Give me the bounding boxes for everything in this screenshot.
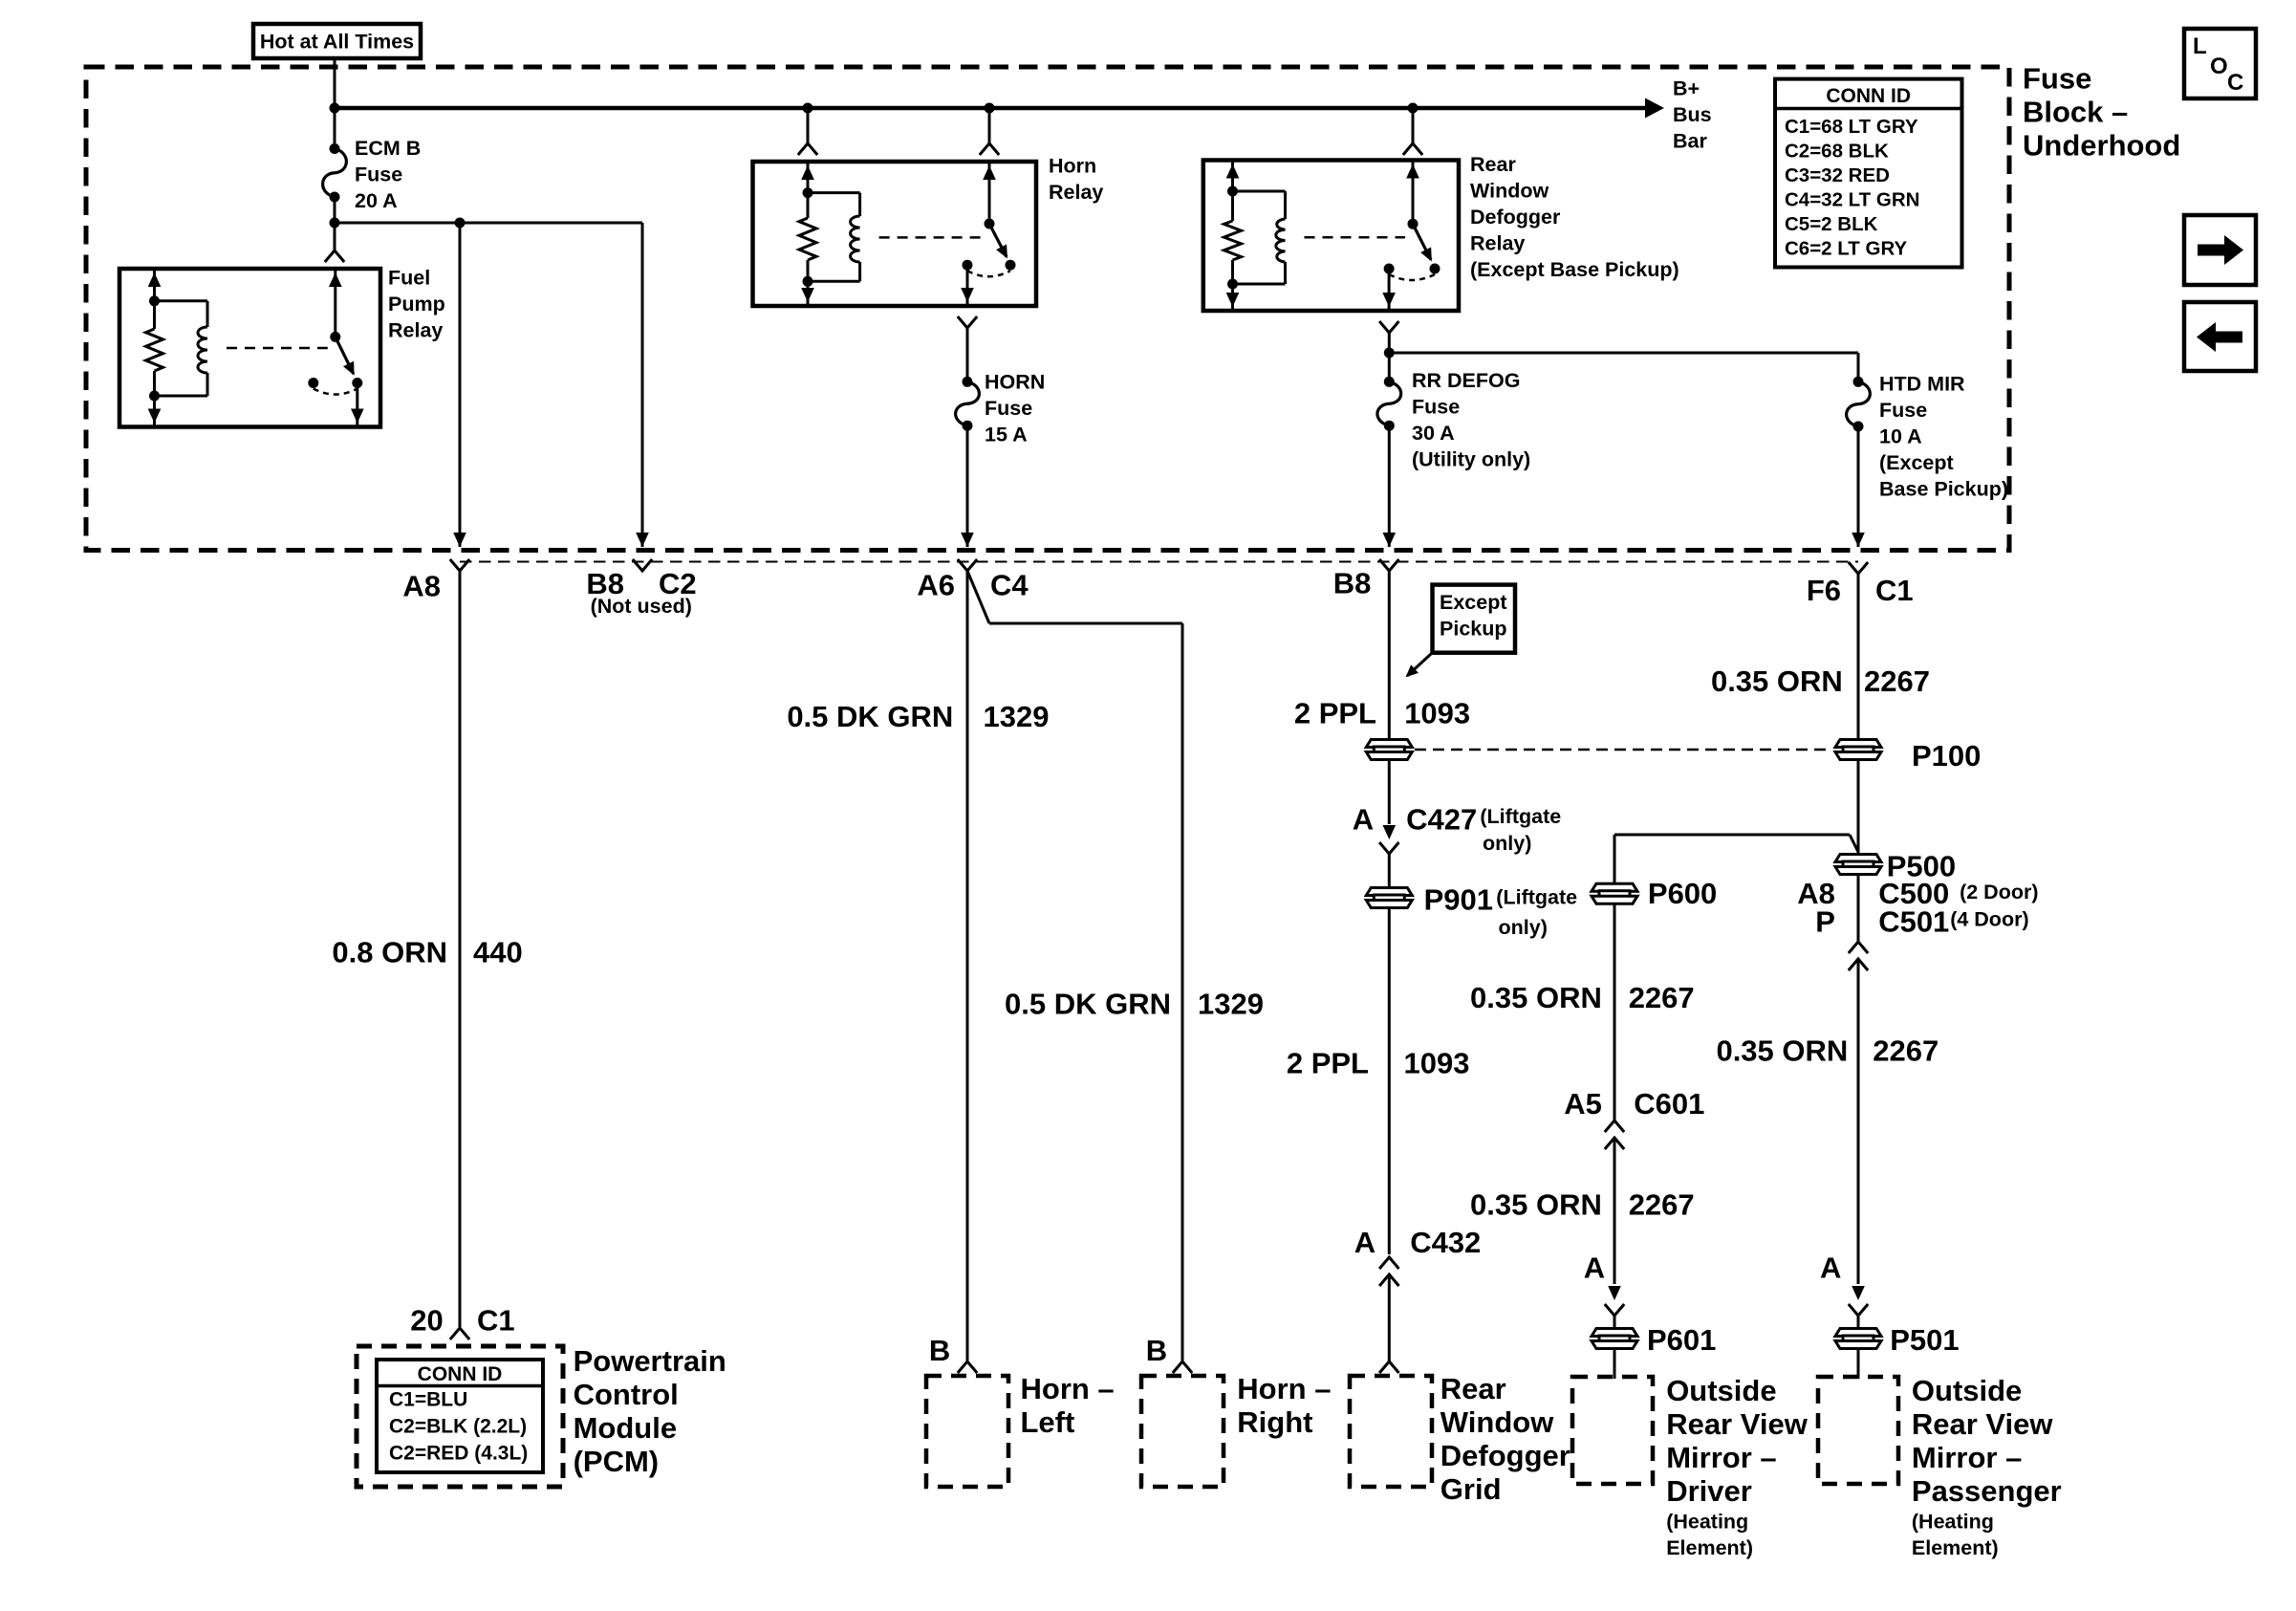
svg-text:A6: A6 <box>917 569 955 602</box>
connector P601 <box>1592 1329 1637 1349</box>
svg-text:Powertrain: Powertrain <box>574 1344 726 1378</box>
wire bus to defogger relay switch <box>1412 108 1415 143</box>
svg-text:F6: F6 <box>1807 574 1841 607</box>
connector P100 left half <box>1366 740 1412 760</box>
chevron C601 lower <box>1605 1138 1624 1149</box>
svg-text:(4 Door): (4 Door) <box>1950 907 2028 930</box>
relay Rear Window Defogger actuating dashed link <box>1305 236 1406 239</box>
relay Fuel Pump switch <box>334 271 336 337</box>
svg-text:P100: P100 <box>1912 739 1981 773</box>
svg-text:Passenger: Passenger <box>1912 1474 2062 1508</box>
chevron C500/C501 upper <box>1849 942 1868 953</box>
wire fuse to junction <box>334 197 336 223</box>
chevron C432 lower <box>1379 1274 1398 1286</box>
svg-text:C1: C1 <box>1875 574 1914 607</box>
svg-text:A8: A8 <box>402 569 441 602</box>
svg-text:CONN ID: CONN ID <box>1826 85 1911 107</box>
svg-text:C4=32 LT GRN: C4=32 LT GRN <box>1785 189 1919 211</box>
svg-text:A: A <box>1354 1226 1375 1259</box>
CONN ID table fuse block <box>1775 79 1962 268</box>
svg-text:Left: Left <box>1021 1405 1075 1439</box>
wire bus to ECM B fuse <box>334 108 336 149</box>
chevron A driver <box>1605 1304 1624 1316</box>
arrow A passenger <box>1852 1286 1865 1300</box>
svg-text:Rear View: Rear View <box>1912 1407 2054 1441</box>
svg-text:Mirror –: Mirror – <box>1912 1441 2022 1474</box>
wire P100 to P500 <box>1857 760 1860 854</box>
svg-text:(Liftgate: (Liftgate <box>1480 805 1561 828</box>
component Horn - Right <box>1141 1376 1224 1487</box>
left arrow box <box>2184 302 2256 371</box>
wire A8 to PCM <box>459 571 462 1327</box>
svg-text:C4: C4 <box>990 569 1029 602</box>
svg-text:CONN ID: CONN ID <box>418 1363 503 1385</box>
relay Horn coil branch <box>807 163 810 218</box>
wire P601 into driver mirror <box>1614 1349 1616 1379</box>
svg-text:C2=RED (4.3L): C2=RED (4.3L) <box>389 1443 528 1465</box>
svg-text:C501: C501 <box>1878 905 1949 939</box>
chevron into horn right <box>1173 1361 1192 1373</box>
relay Rear Window Defogger output wire <box>1388 269 1391 309</box>
wire P500 branch to P600 <box>1850 835 1858 852</box>
svg-text:C1=BLU: C1=BLU <box>389 1389 467 1411</box>
chevron into PCM <box>450 1328 469 1339</box>
LOC box <box>2184 29 2256 98</box>
wire C601 down to A <box>1614 1138 1616 1284</box>
chevron B8 defog <box>1379 559 1398 571</box>
svg-text:C1=68 LT GRY: C1=68 LT GRY <box>1785 116 1918 138</box>
svg-text:Outside: Outside <box>1666 1374 1776 1407</box>
component Outside Rear View Mirror - Driver <box>1572 1377 1653 1484</box>
svg-text:0.35 ORN: 0.35 ORN <box>1470 1188 1602 1222</box>
svg-text:Grid: Grid <box>1440 1472 1502 1506</box>
svg-text:Rear: Rear <box>1440 1372 1506 1405</box>
svg-text:2267: 2267 <box>1864 664 1930 698</box>
svg-text:2267: 2267 <box>1629 981 1695 1014</box>
svg-text:1093: 1093 <box>1404 697 1470 730</box>
fuse ECM B 20 A <box>330 143 340 154</box>
svg-text:Control: Control <box>574 1378 679 1411</box>
svg-text:Right: Right <box>1237 1405 1312 1439</box>
wire from Hot at All Times to bus <box>334 58 336 108</box>
relay Horn box <box>753 162 1037 306</box>
svg-text:(2 Door): (2 Door) <box>1960 881 2038 903</box>
wire P600 down to A5 C601 <box>1614 903 1616 1121</box>
chevron C601 upper <box>1605 1121 1624 1132</box>
svg-text:10 A: 10 A <box>1879 425 1922 447</box>
B+ bus bar arrowhead <box>1645 98 1664 119</box>
chevron into horn relay switch <box>980 143 999 155</box>
chevron into horn relay coil <box>798 143 817 155</box>
wire horn left down <box>966 571 969 1361</box>
svg-text:L: L <box>2193 33 2207 59</box>
component Rear Window Defogger Grid <box>1350 1376 1432 1487</box>
svg-text:Hot at All Times: Hot at All Times <box>260 31 414 54</box>
PCM CONN ID table <box>377 1360 543 1472</box>
svg-text:P601: P601 <box>1647 1323 1716 1357</box>
fuse HTD MIR 10 A <box>1853 377 1864 387</box>
arrow at F6 exit <box>1852 533 1865 547</box>
svg-text:Fuse: Fuse <box>2023 62 2091 96</box>
svg-text:Driver: Driver <box>1666 1474 1752 1508</box>
svg-text:Pump: Pump <box>388 293 445 316</box>
svg-text:B+: B+ <box>1673 76 1700 99</box>
junction bus / defogger relay switch <box>1408 103 1419 114</box>
svg-text:Fuse: Fuse <box>985 397 1032 420</box>
wire horn right branch <box>967 571 989 623</box>
wire C501 down to A <box>1857 959 1860 1284</box>
svg-text:0.8 ORN: 0.8 ORN <box>332 936 447 969</box>
wire to P501 <box>1857 1316 1860 1328</box>
chevron below horn relay <box>958 316 977 328</box>
B+ bus bar wire <box>335 106 1647 111</box>
svg-text:A: A <box>1820 1252 1841 1285</box>
wire branch A8 down <box>459 223 462 547</box>
svg-text:C5=2 BLK: C5=2 BLK <box>1785 213 1878 235</box>
wire junction to fuel pump relay <box>334 223 336 250</box>
arrow at B8 exit <box>1383 533 1397 547</box>
svg-text:Rear View: Rear View <box>1666 1407 1809 1441</box>
svg-text:P600: P600 <box>1648 877 1717 910</box>
arrow C427 <box>1383 825 1397 839</box>
junction bus / ECM B feed <box>330 103 340 114</box>
Hot at All Times box <box>253 24 421 58</box>
wire C432 to defogger grid <box>1388 1274 1391 1361</box>
svg-text:HTD MIR: HTD MIR <box>1879 372 1965 395</box>
relay Horn output wire <box>966 265 969 304</box>
svg-text:C427: C427 <box>1406 803 1477 837</box>
arrow at B8 C2 exit <box>636 533 649 547</box>
svg-text:2 PPL: 2 PPL <box>1287 1047 1369 1080</box>
svg-text:B: B <box>1146 1334 1167 1367</box>
relay Horn switch <box>988 163 991 224</box>
chevron C432 upper <box>1379 1257 1398 1269</box>
svg-text:1093: 1093 <box>1404 1047 1470 1080</box>
svg-text:Block –: Block – <box>2023 96 2128 129</box>
svg-text:Bar: Bar <box>1673 129 1707 152</box>
wire P100 to C427 <box>1388 760 1391 824</box>
junction below ECM B fuse <box>330 218 340 229</box>
relay Fuel Pump box <box>119 269 380 427</box>
svg-text:20 A: 20 A <box>355 189 398 212</box>
arrow A driver <box>1608 1286 1621 1300</box>
svg-text:Defogger: Defogger <box>1470 206 1561 229</box>
wire bus to horn relay switch <box>988 108 991 143</box>
svg-text:30 A: 30 A <box>1412 422 1455 445</box>
component Outside Rear View Mirror - Passenger <box>1818 1377 1898 1484</box>
wire P501 into passenger mirror <box>1857 1349 1860 1379</box>
svg-text:Module: Module <box>574 1411 678 1445</box>
chevron B8 C2 <box>633 559 652 571</box>
svg-text:Fuse: Fuse <box>1879 399 1927 422</box>
svg-text:Fuse: Fuse <box>1412 395 1460 418</box>
svg-text:C2=BLK (2.2L): C2=BLK (2.2L) <box>389 1416 527 1438</box>
component Horn - Left <box>926 1376 1008 1487</box>
svg-text:Fuse: Fuse <box>355 163 402 185</box>
wire HTD MIR fuse to F6 exit <box>1857 426 1860 547</box>
svg-text:15 A: 15 A <box>985 423 1028 446</box>
svg-text:only): only) <box>1499 916 1548 939</box>
svg-text:Bus: Bus <box>1673 103 1712 126</box>
fuse RR DEFOG 30 A <box>1384 377 1395 387</box>
wire C427 to P901 <box>1388 854 1391 887</box>
svg-text:(Heating: (Heating <box>1666 1510 1748 1533</box>
junction bus / horn relay switch <box>985 103 995 114</box>
svg-text:0.35 ORN: 0.35 ORN <box>1716 1034 1848 1068</box>
svg-text:Base Pickup): Base Pickup) <box>1879 477 2008 500</box>
svg-text:Pickup: Pickup <box>1440 617 1507 640</box>
svg-text:Except: Except <box>1440 591 1507 614</box>
svg-text:Relay: Relay <box>1470 231 1525 254</box>
chevron A8 <box>450 559 469 571</box>
svg-text:C432: C432 <box>1410 1226 1481 1259</box>
svg-text:Relay: Relay <box>388 318 443 341</box>
svg-text:Underhood: Underhood <box>2023 129 2180 163</box>
wire to P601 <box>1614 1316 1616 1328</box>
svg-text:C1: C1 <box>477 1304 515 1338</box>
svg-text:A: A <box>1353 803 1374 837</box>
junction bus / horn relay coil <box>803 103 813 114</box>
wire P500 to C500/C501 <box>1857 875 1860 942</box>
wire P901 down to C432 <box>1388 908 1391 1254</box>
fuse HORN 15 A <box>963 377 973 387</box>
svg-text:O: O <box>2210 54 2228 79</box>
arrow at A8 exit <box>453 533 466 547</box>
chevron C427 <box>1379 842 1398 854</box>
svg-text:A: A <box>1584 1252 1605 1285</box>
svg-text:C: C <box>2227 70 2243 96</box>
wire branch to B8 (not used) <box>335 222 642 225</box>
relay Rear Window Defogger box <box>1203 161 1459 312</box>
svg-text:C3=32 RED: C3=32 RED <box>1785 164 1890 186</box>
connector plane thin dashed line <box>460 561 1858 563</box>
svg-text:Window: Window <box>1440 1405 1554 1439</box>
svg-text:(Liftgate: (Liftgate <box>1496 886 1577 909</box>
svg-text:1329: 1329 <box>984 700 1050 733</box>
svg-text:P901: P901 <box>1424 883 1493 917</box>
svg-text:2267: 2267 <box>1629 1188 1695 1222</box>
svg-text:Defogger: Defogger <box>1440 1439 1570 1472</box>
relay Fuel Pump coil branch <box>153 271 156 329</box>
svg-text:Horn –: Horn – <box>1237 1372 1331 1405</box>
svg-text:2267: 2267 <box>1873 1034 1939 1068</box>
svg-text:(Heating: (Heating <box>1912 1510 1994 1533</box>
svg-text:Window: Window <box>1470 179 1549 202</box>
chevron into defogger grid <box>1379 1361 1398 1373</box>
chevron F6 C1 <box>1849 562 1868 574</box>
svg-text:Outside: Outside <box>1912 1374 2022 1407</box>
svg-text:Element): Element) <box>1912 1536 1999 1559</box>
wire RR DEFOG fuse to B8 exit <box>1388 425 1391 547</box>
svg-text:only): only) <box>1483 832 1531 855</box>
svg-text:(PCM): (PCM) <box>574 1445 660 1478</box>
svg-text:ECM B: ECM B <box>355 137 421 160</box>
junction A8 branch <box>455 218 466 229</box>
svg-text:1329: 1329 <box>1198 988 1264 1021</box>
fuse block underhood dashed boundary <box>86 67 2009 551</box>
relay Fuel Pump output wire <box>356 383 358 425</box>
svg-text:B8: B8 <box>1333 567 1372 600</box>
wire branch to HTD MIR fuse <box>1389 352 1858 355</box>
wire F6 to P100 <box>1857 574 1860 739</box>
svg-text:P501: P501 <box>1890 1323 1959 1357</box>
chevron below defogger relay <box>1379 321 1398 333</box>
connector chevron into fuel pump relay <box>325 250 344 262</box>
chevron C500/C501 lower <box>1849 959 1868 970</box>
svg-text:Fuel: Fuel <box>388 266 430 289</box>
chevron into horn left <box>958 1361 977 1373</box>
svg-text:(Except: (Except <box>1879 451 1954 474</box>
svg-text:20: 20 <box>410 1304 443 1338</box>
wire HORN fuse to A6 exit <box>966 425 969 547</box>
relay Horn actuating dashed link <box>879 236 982 239</box>
svg-text:Mirror –: Mirror – <box>1666 1441 1776 1474</box>
chevron A6 C4 <box>958 559 977 571</box>
connector P901 <box>1366 888 1412 908</box>
connector P500 <box>1835 855 1881 875</box>
svg-text:0.35 ORN: 0.35 ORN <box>1711 664 1843 698</box>
svg-text:Relay: Relay <box>1049 181 1103 204</box>
relay Rear Window Defogger switch <box>1412 163 1415 225</box>
svg-text:(Utility only): (Utility only) <box>1412 447 1530 470</box>
relay Rear Window Defogger coil branch <box>1231 163 1234 222</box>
svg-text:B: B <box>929 1334 950 1367</box>
dashed pairing line P100 <box>1415 749 1832 751</box>
svg-text:Rear: Rear <box>1470 153 1516 176</box>
wire bus to horn relay coil <box>807 108 810 143</box>
chevron A passenger <box>1849 1304 1868 1316</box>
svg-text:Element): Element) <box>1666 1536 1753 1559</box>
svg-text:440: 440 <box>473 936 523 969</box>
svg-text:0.35 ORN: 0.35 ORN <box>1470 981 1602 1014</box>
junction defog / HTD MIR branch <box>1384 348 1395 359</box>
svg-text:C601: C601 <box>1634 1087 1704 1121</box>
wire B8 to P100 <box>1388 571 1391 739</box>
svg-text:(Not used): (Not used) <box>591 595 692 618</box>
svg-text:0.5 DK GRN: 0.5 DK GRN <box>787 700 953 733</box>
svg-text:(Except Base Pickup): (Except Base Pickup) <box>1470 258 1679 281</box>
Except Pickup arrow <box>1407 654 1431 676</box>
component PCM dashed box <box>357 1346 563 1487</box>
svg-text:HORN: HORN <box>985 370 1045 393</box>
relay Fuel Pump actuating dashed link <box>227 347 328 350</box>
right arrow box <box>2184 215 2256 285</box>
arrow at A6 C4 exit <box>961 533 974 547</box>
connector P600 <box>1592 883 1637 903</box>
connector P501 <box>1835 1329 1881 1349</box>
svg-text:Horn –: Horn – <box>1021 1372 1115 1405</box>
Except Pickup callout box <box>1433 585 1516 653</box>
svg-text:C2=68 BLK: C2=68 BLK <box>1785 141 1889 163</box>
svg-text:RR DEFOG: RR DEFOG <box>1412 369 1520 392</box>
svg-text:A5: A5 <box>1564 1087 1602 1121</box>
svg-text:2 PPL: 2 PPL <box>1294 697 1376 730</box>
svg-text:Horn: Horn <box>1049 154 1096 177</box>
connector P100 right half <box>1835 740 1881 760</box>
chevron into defogger relay switch <box>1403 143 1422 155</box>
svg-text:P: P <box>1815 905 1835 939</box>
svg-text:C6=2 LT GRY: C6=2 LT GRY <box>1785 238 1907 260</box>
svg-text:0.5 DK GRN: 0.5 DK GRN <box>1005 988 1171 1021</box>
